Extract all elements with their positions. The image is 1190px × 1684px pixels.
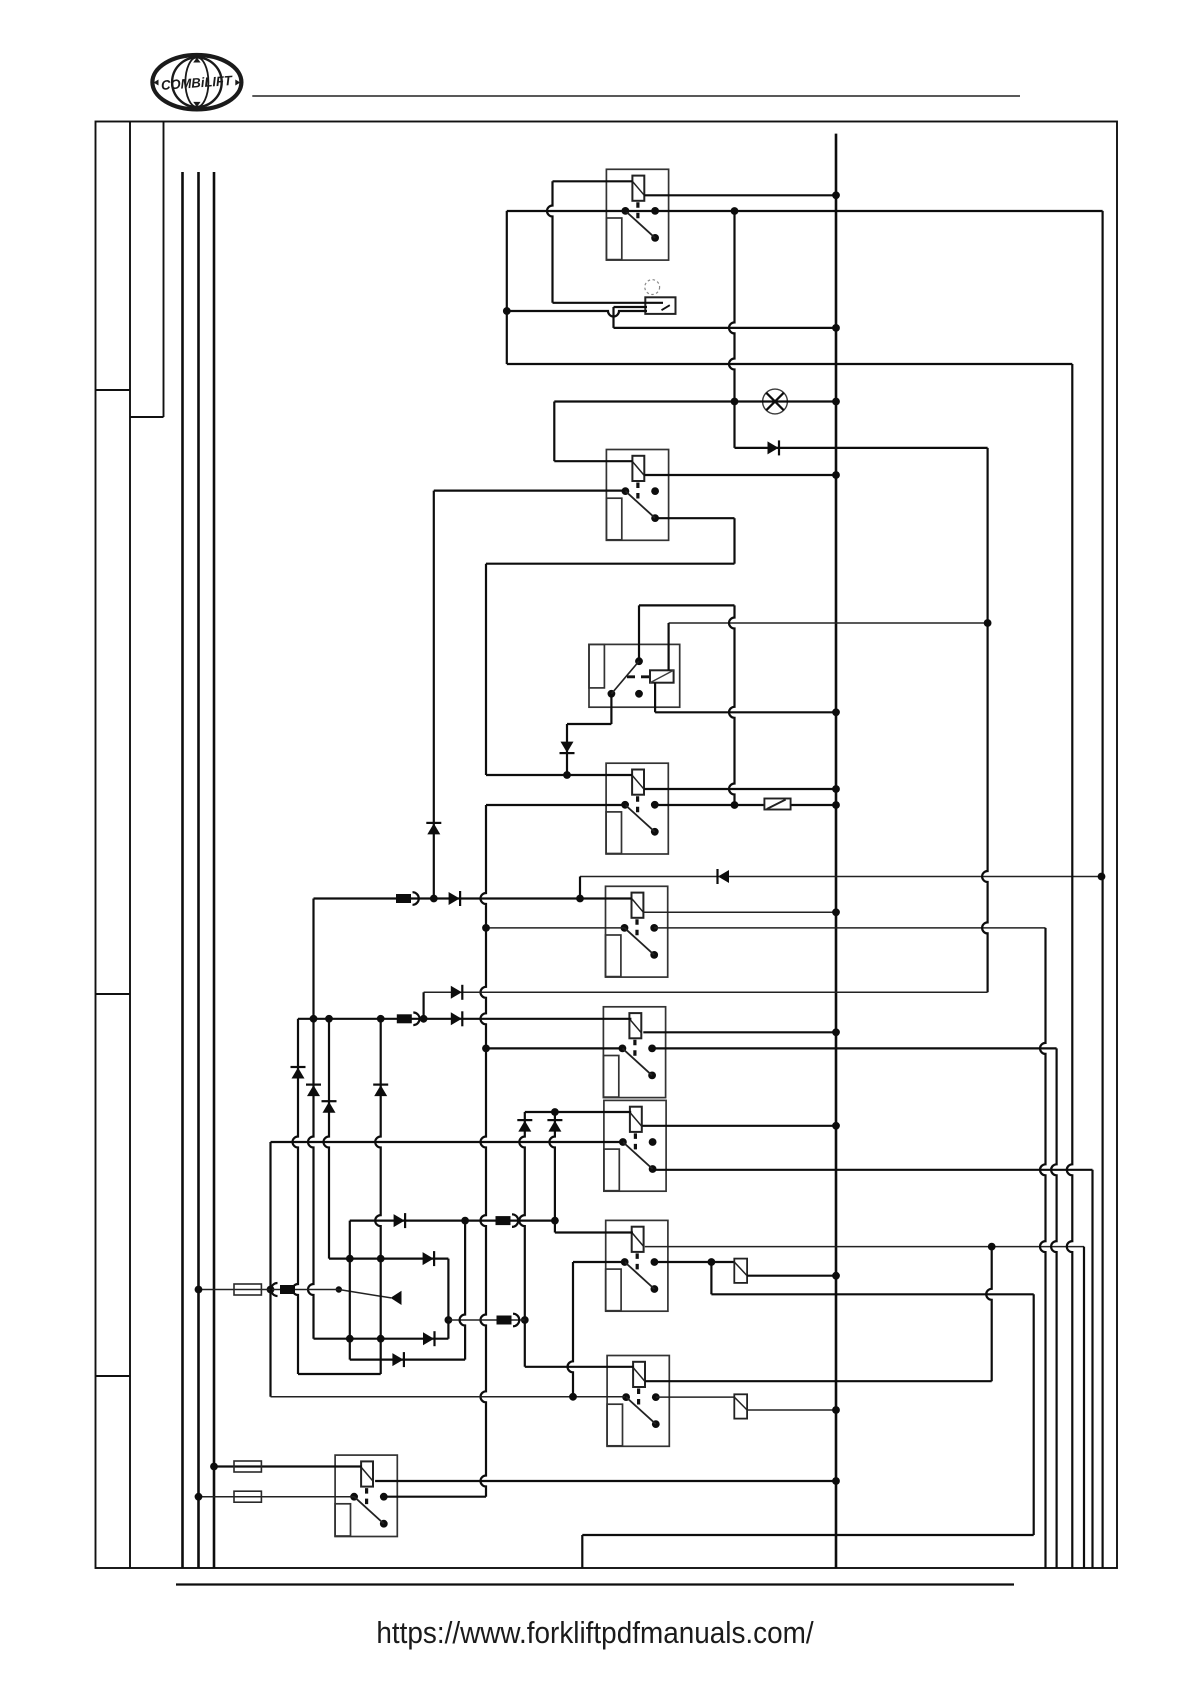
vertical x554.9 diode leg: [549, 1112, 555, 1233]
vertical x465.1: [460, 1221, 466, 1360]
node y898.5 x433.8: [430, 895, 438, 903]
node y1258.6 x380.7: [377, 1255, 385, 1263]
wire row y1258.6: [329, 1257, 448, 1259]
wire K8 coil right y1246.6: [645, 1246, 1084, 1248]
vertical x313.5 diode leg: [308, 899, 314, 1339]
diode D9: [718, 869, 730, 884]
node y1220.6 x465.1: [461, 1217, 469, 1225]
vertical V2 x1045.5: [1040, 928, 1046, 1568]
vertical V3 x1056.6: [1051, 1048, 1057, 1568]
node bus y327.9: [832, 324, 840, 332]
wire row y1359.6: [350, 1358, 465, 1360]
wire K1 coil left y181.3: [553, 180, 633, 182]
node bus lamp: [832, 398, 840, 406]
horn symbol: [391, 1291, 402, 1305]
node V1 y623: [984, 619, 992, 627]
wire K3 coil to V1 y623: [669, 622, 988, 624]
relay K10 (bottom left): [335, 1455, 397, 1536]
node y1396.8 x573: [569, 1393, 577, 1401]
vertical x506.8 key feed: [506, 211, 508, 364]
node bus y475: [832, 471, 840, 479]
wire K5 coil left y898.5: [314, 897, 632, 899]
vertical diode branch x567: [566, 724, 568, 775]
wire K10 coil to bus y1481: [375, 1480, 836, 1482]
frame column line x=163.5: [163, 122, 165, 418]
svg-text:COMBiLIFT: COMBiLIFT: [160, 73, 234, 93]
wire B1 to bus y1275.7: [747, 1275, 836, 1277]
wire K6 coil left y1018.8: [298, 1018, 631, 1020]
wire K3 top contact y605.4: [639, 604, 735, 606]
wire return y563.7: [486, 563, 735, 565]
node x554.9 y1220.6: [551, 1217, 559, 1225]
node y1018.8 x329: [325, 1015, 333, 1023]
node x991.7 y1246.6: [988, 1243, 996, 1251]
connector X2: [397, 1013, 420, 1026]
node x524.8 y1320: [521, 1316, 529, 1324]
vertical x380.7 diode leg: [375, 1019, 381, 1374]
diode D16: [426, 823, 441, 835]
vertical V4 x1072.3: [1067, 364, 1073, 1568]
node x734.5 y805: [731, 801, 739, 809]
wire key switch feed y302.8: [553, 302, 664, 304]
vertical K1 coil feed x552.5: [547, 181, 552, 302]
vertical feed x486 upper: [485, 564, 487, 775]
wire bottom return y1535: [582, 1534, 1033, 1536]
wire row y1374: [298, 1373, 381, 1375]
sender unit B1: [734, 1259, 747, 1283]
node bus y1125.8: [832, 1122, 840, 1130]
wire horn row y1289.5: [199, 1289, 339, 1291]
connector X4: [497, 1314, 520, 1327]
node y1258.6 x349.8: [346, 1255, 354, 1263]
wire K3 contact link y724: [567, 723, 611, 725]
diode D4: [449, 891, 461, 906]
vertical x524.8 diode leg: [519, 1112, 525, 1367]
vertical key prong drop x613.5: [612, 307, 614, 328]
supply rail 3 x=214: [213, 172, 216, 1568]
relay K5: [606, 886, 668, 977]
supply rail 2 x=198.5: [197, 172, 200, 1568]
wire K8 coil pilot y1220.6: [350, 1219, 555, 1221]
connector X5: [271, 1283, 295, 1296]
diode D13: [373, 1085, 388, 1097]
node y1338.7 x349.8: [346, 1335, 354, 1343]
relay K6: [603, 1007, 665, 1098]
wire K8 aux y1294.3: [711, 1293, 1033, 1295]
wire K5 left contact y927.9: [486, 927, 625, 929]
wire K2 lower contact y518.2: [655, 517, 734, 519]
vertical x433.8 with diode: [433, 491, 435, 899]
relay K2: [606, 450, 668, 541]
wire K2 coil left y461.2: [554, 460, 632, 462]
vertical x486 lower: [480, 805, 486, 1497]
diode D7: [423, 1331, 435, 1346]
diode D17: [560, 742, 575, 754]
vertical x991.7: [986, 1247, 992, 1382]
node y1018.8 x423.6: [420, 1015, 428, 1023]
frame divider y=417: [130, 416, 164, 418]
relay K1 (top): [606, 169, 668, 260]
node bus y712.3: [832, 708, 840, 716]
wire K10 right contact y1496.7: [384, 1496, 486, 1498]
wire flasher to bus y805: [791, 804, 836, 806]
node lamp left: [731, 398, 739, 406]
wire K9 coil right y1381.2: [645, 1380, 992, 1382]
wire K10 contact feed y1496.7: [199, 1496, 355, 1498]
Combilift logo: [152, 55, 241, 109]
key switch S1: [645, 280, 676, 314]
node bus y1481: [832, 1477, 840, 1485]
connector X1: [396, 892, 419, 905]
node rail2 y1289.5: [195, 1286, 203, 1294]
header rule: [252, 95, 1020, 97]
wire K5 right contact y927.9: [654, 927, 1045, 929]
wire K9 right contact y1397.1: [656, 1396, 735, 1398]
relay K7: [604, 1100, 666, 1191]
sender unit B2: [734, 1394, 747, 1418]
flasher unit: [764, 799, 790, 810]
wire K6 right contact y1048.4: [652, 1047, 1057, 1049]
wire row y1338.7: [314, 1338, 449, 1340]
node x486 y927.9: [482, 924, 490, 932]
diode D6: [423, 1251, 435, 1266]
wire K7 lower contact y1169.8: [653, 1169, 1093, 1171]
frame divider y=1376: [96, 1375, 131, 1377]
diode D12: [322, 1101, 337, 1113]
frame divider y=994: [96, 993, 131, 995]
wire K4 left contact y805: [486, 804, 625, 806]
node x486 y1048.4: [482, 1045, 490, 1053]
wire to key switch y311: [507, 311, 647, 317]
wire diode return y992.3: [424, 991, 988, 993]
vertical x298 diode leg: [293, 1019, 299, 1374]
relay K4: [606, 763, 668, 854]
node key feed junction: [503, 307, 511, 315]
vertical x448.4: [447, 1259, 449, 1339]
wire K4 coil to bus y789: [644, 788, 836, 790]
vertical x580 short: [579, 877, 581, 899]
node bus y1275.7: [832, 1272, 840, 1280]
node bus y195.3: [832, 191, 840, 199]
vertical K2 coil feed x554.3: [553, 402, 555, 462]
page border frame: [96, 122, 1118, 1569]
diode D15: [547, 1120, 562, 1132]
wire row y1320: [448, 1319, 524, 1321]
wire turn feed y876.5: [580, 876, 1102, 878]
vertical x270.5: [269, 1142, 271, 1397]
node x448.4 y1320: [445, 1316, 453, 1324]
vertical K3 contact drop x611.4: [610, 694, 612, 724]
wire key to bus y327.9: [614, 327, 837, 329]
vertical K3 top contact x639: [638, 605, 640, 661]
fuse F2: [234, 1461, 261, 1472]
wire K2 left contact y490.6: [434, 490, 626, 492]
wire key row y211: [507, 210, 1103, 212]
wire K7 left contact y1142: [271, 1141, 623, 1143]
node K4 coil feed: [563, 771, 571, 779]
vertical lamp branch x734.5 upper: [729, 211, 735, 448]
wire lower feed y364: [507, 363, 1073, 365]
wire K7 coil left y1112: [525, 1111, 631, 1113]
node y1338.7 x380.7: [377, 1335, 385, 1343]
wire K2 coil to bus y475: [644, 474, 836, 476]
vertical K3 coil top x668.6: [667, 623, 669, 670]
node y1112 x554.9: [551, 1108, 559, 1116]
wire K8 left contact y1262: [573, 1261, 625, 1263]
node y898.5 x580: [576, 895, 584, 903]
main bus x=836: [835, 134, 838, 1568]
frame divider y=390: [96, 389, 131, 391]
diode D11: [306, 1085, 321, 1097]
key switch terminal prong: [614, 306, 648, 308]
diode D14: [517, 1120, 532, 1132]
relay K9: [607, 1356, 669, 1447]
vertical V7 x1102.6: [1101, 211, 1103, 1568]
wire K8 coil left y1232.5: [555, 1231, 633, 1233]
wire K8 right contact y1262: [654, 1261, 734, 1263]
vertical x734.5 mid: [733, 518, 735, 564]
node rail2 y1496.7: [195, 1493, 203, 1501]
diode D3: [451, 1011, 463, 1026]
node bus y1032.3: [832, 1028, 840, 1036]
vertical x582.3: [581, 1535, 583, 1568]
wire K9 coil left y1366.8: [525, 1366, 634, 1368]
node y1018.8 x313.5: [310, 1015, 318, 1023]
node bus y912.3: [832, 908, 840, 916]
vertical V8 x1033.7: [1033, 1294, 1035, 1535]
footer rule: [176, 1583, 1014, 1585]
node bus y789: [832, 785, 840, 793]
wire K1 coil to bus y195.3: [644, 194, 836, 196]
node y1262 x711.4: [708, 1258, 716, 1266]
horn switch lever: [336, 1286, 391, 1298]
vertical V6 x1092.5: [1091, 1170, 1093, 1568]
vertical V1 x987.6: [982, 448, 987, 992]
wire K4 coil left y775: [486, 774, 632, 776]
wire K6 coil to bus y1032.3: [643, 1031, 836, 1033]
vertical x573: [568, 1262, 574, 1397]
wire K6 left contact y1048.4: [486, 1047, 622, 1049]
vertical K3 coil bottom x655.1: [654, 683, 656, 713]
vertical x423.6: [423, 992, 425, 1019]
vertical x329 diode leg: [324, 1019, 330, 1259]
wire K3 coil bottom to bus y712.3: [655, 711, 836, 713]
diode D8: [392, 1352, 404, 1367]
vertical x349.8: [349, 1221, 351, 1360]
node bus y1410: [832, 1406, 840, 1414]
vertical x711.4: [710, 1262, 712, 1294]
relay K8: [606, 1220, 668, 1311]
indicator lamp L1: [763, 389, 788, 414]
fuse F3: [234, 1491, 261, 1502]
wire diode row y447.9: [735, 447, 988, 449]
wire K9 left contact y1396.8: [271, 1396, 625, 1398]
wire K10 coil feed y1466.5: [214, 1465, 362, 1467]
vertical x734.5 lower: [729, 605, 735, 805]
supply rail 1 x=182.5: [181, 172, 184, 1568]
footer url: [60, 1615, 1131, 1651]
connector X3: [496, 1214, 519, 1227]
fuse F1: [234, 1284, 261, 1295]
wire B2 to bus y1410: [747, 1409, 836, 1411]
node key row x734.5: [731, 207, 739, 215]
diode D1: [768, 440, 780, 455]
node rail3 y1466.5: [210, 1463, 218, 1471]
node bus y805: [832, 801, 840, 809]
node V7 y876.5: [1098, 873, 1106, 881]
diode D10: [291, 1067, 306, 1079]
frame column line x=130: [129, 122, 131, 1569]
wire K4 right contact y805: [655, 804, 764, 806]
wire K5 coil to bus y912.3: [643, 911, 836, 913]
relay K3 (mirrored): [589, 644, 680, 707]
diode D2: [451, 985, 463, 1000]
diode D5: [394, 1213, 406, 1228]
node y1018.8 x380.7: [377, 1015, 385, 1023]
wire K7 coil to bus y1125.8: [643, 1125, 837, 1127]
wire lamp row y401.5: [554, 400, 836, 402]
vertical V5 x1084: [1083, 1247, 1085, 1568]
node x270.5 y1289.5: [267, 1286, 275, 1294]
